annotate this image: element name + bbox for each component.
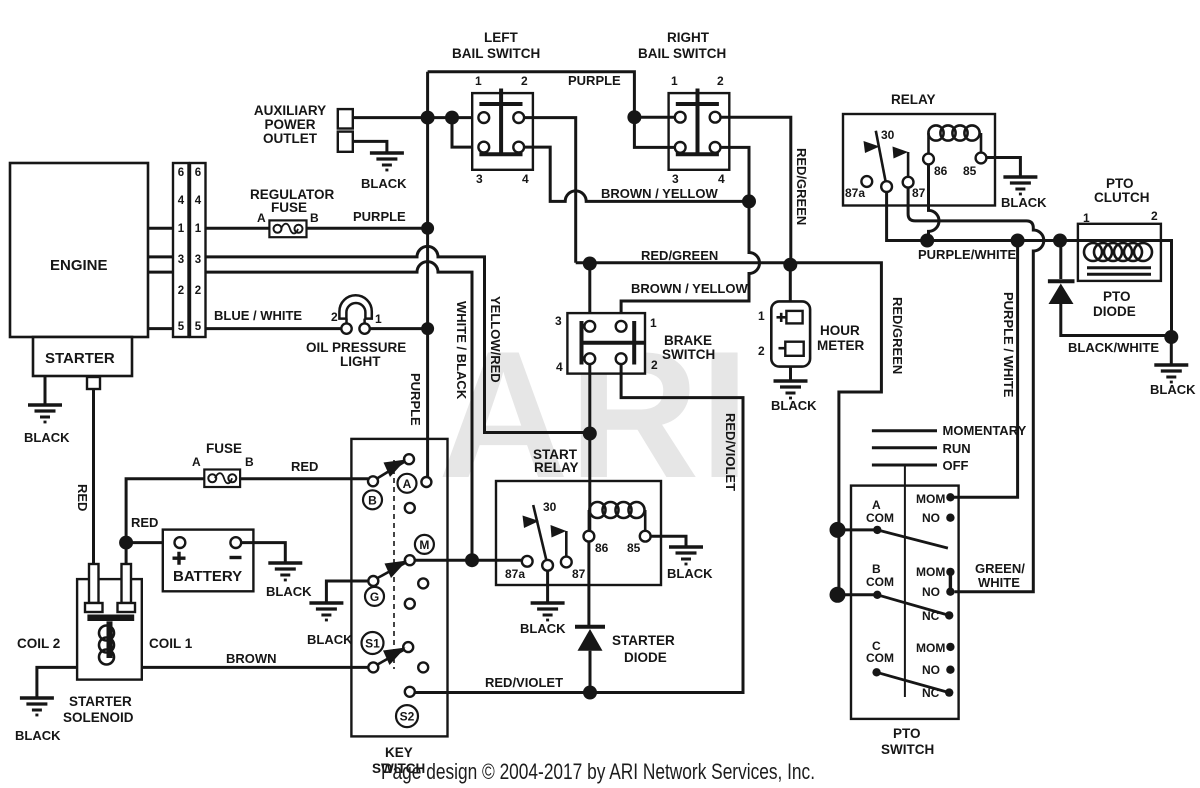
svg-text:2: 2 <box>521 74 528 88</box>
node right bail feed junction <box>627 110 641 124</box>
svg-text:SWITCH: SWITCH <box>881 742 934 757</box>
svg-text:1: 1 <box>650 316 657 330</box>
svg-text:ENGINE: ENGINE <box>50 257 108 274</box>
svg-text:BROWN: BROWN <box>226 651 277 666</box>
svg-text:B: B <box>368 494 377 508</box>
svg-text:30: 30 <box>881 128 895 142</box>
svg-text:2: 2 <box>178 285 184 297</box>
wire relay 87 down then green/white run with hop <box>908 188 1044 592</box>
svg-text:LEFT: LEFT <box>484 30 518 45</box>
svg-text:3: 3 <box>555 314 562 328</box>
svg-text:BLACK: BLACK <box>361 176 407 191</box>
svg-text:RED/VIOLET: RED/VIOLET <box>485 675 563 690</box>
wire engine pin3a <box>148 255 173 258</box>
wire start relay 85 to ground <box>651 536 686 546</box>
svg-text:BLACK: BLACK <box>24 430 70 445</box>
label GREEN/WHITE <box>975 561 1025 590</box>
ground relay <box>1003 177 1037 194</box>
svg-text:PURPLE/WHITE: PURPLE/WHITE <box>918 247 1017 262</box>
node white/black M junction <box>465 553 479 567</box>
svg-text:B: B <box>245 455 254 469</box>
svg-text:MOM: MOM <box>916 492 945 506</box>
key arm B-A <box>377 462 404 479</box>
wire B com junction to contact <box>838 593 878 596</box>
ground pto <box>1154 365 1188 382</box>
wire right bail pin2 down red/green vertical <box>721 117 791 265</box>
ground start relay 85 <box>669 547 703 564</box>
svg-text:BLACK: BLACK <box>1150 382 1196 397</box>
svg-text:4: 4 <box>556 360 563 374</box>
wire start relay 86 line down to starter diode <box>587 542 590 625</box>
svg-text:3: 3 <box>672 172 679 186</box>
key switch S3 <box>351 439 447 776</box>
wire engine pin5 <box>148 327 173 330</box>
wire battery minus to ground <box>241 543 285 562</box>
wire purple/white down to PTO switch A MOM <box>950 241 1017 498</box>
wire engine pin3b to white/black corner with hop over purple line <box>206 262 473 560</box>
ground solenoid <box>20 698 54 715</box>
label AUXILIARY POWER OUTLET <box>254 103 326 146</box>
pto switch legend OFF <box>872 458 969 473</box>
node pto B com junction <box>830 587 846 603</box>
wire RED/GREEN main run <box>576 263 882 595</box>
svg-text:STARTER: STARTER <box>612 633 675 648</box>
wire BLUE/WHITE engine pin5 to oil pressure light <box>206 308 347 329</box>
svg-text:BATTERY: BATTERY <box>173 568 242 585</box>
start relay coil <box>589 510 645 530</box>
svg-text:RIGHT: RIGHT <box>667 30 710 45</box>
svg-text:B: B <box>310 211 319 225</box>
key arm G-M <box>378 563 406 578</box>
svg-text:COM: COM <box>866 651 894 665</box>
node purple-oil junction <box>421 322 434 335</box>
svg-text:RED: RED <box>291 459 318 474</box>
ground starter <box>28 405 62 422</box>
ground battery <box>268 563 302 580</box>
auxiliary power outlet connector 2 <box>338 132 353 152</box>
svg-text:YELLOW/RED: YELLOW/RED <box>488 296 503 383</box>
ground start relay pivot <box>531 603 565 620</box>
svg-text:A: A <box>403 477 412 491</box>
node purple-regulator junction <box>421 222 434 235</box>
svg-text:2: 2 <box>195 285 201 297</box>
svg-text:LIGHT: LIGHT <box>340 354 381 369</box>
svg-text:COM: COM <box>866 511 894 525</box>
svg-text:S2: S2 <box>400 710 415 724</box>
wire relay 85 to ground <box>987 158 1021 177</box>
svg-text:BLACK: BLACK <box>1001 195 1047 210</box>
svg-text:DIODE: DIODE <box>1093 304 1136 319</box>
svg-text:POWER: POWER <box>264 117 315 132</box>
svg-text:RED: RED <box>75 484 90 511</box>
svg-text:RED/GREEN: RED/GREEN <box>641 248 718 263</box>
svg-text:STARTER: STARTER <box>69 694 132 709</box>
svg-text:NO: NO <box>922 663 940 677</box>
wire purple main vertical from top wire to key switch A <box>426 72 429 477</box>
wire junction down to right bail pin3 <box>634 117 674 147</box>
node red/green brake junction <box>583 257 597 271</box>
wire pin1 to regulator fuse <box>206 227 270 230</box>
node black/white ground junction <box>1164 330 1178 344</box>
svg-text:5: 5 <box>178 321 185 333</box>
svg-text:3: 3 <box>178 254 184 266</box>
svg-text:1: 1 <box>178 223 185 235</box>
svg-text:CLUTCH: CLUTCH <box>1094 190 1150 205</box>
node aux-purple junction <box>421 111 435 125</box>
starter solenoid K1 <box>17 564 193 725</box>
svg-text:4: 4 <box>178 195 185 207</box>
node purple/white junction 86 <box>920 234 934 248</box>
wire key G to ground <box>326 581 368 602</box>
svg-text:BLACK: BLACK <box>520 621 566 636</box>
node purple/white A-mom junction <box>1011 234 1025 248</box>
svg-text:S1: S1 <box>365 637 380 651</box>
relay U1 <box>843 92 995 206</box>
svg-text:PURPLE: PURPLE <box>568 73 621 88</box>
wire right bail pin4 down with hop over red/green <box>621 147 759 321</box>
svg-text:BLUE / WHITE: BLUE / WHITE <box>214 308 302 323</box>
svg-text:BAIL SWITCH: BAIL SWITCH <box>638 46 726 61</box>
svg-text:2: 2 <box>1151 209 1158 223</box>
svg-text:RED: RED <box>131 515 158 530</box>
svg-text:BROWN / YELLOW: BROWN / YELLOW <box>601 186 718 201</box>
wire start relay pivot to ground <box>546 571 549 602</box>
right bail switch <box>638 30 729 186</box>
svg-text:M: M <box>419 538 429 552</box>
svg-text:NO: NO <box>922 511 940 525</box>
svg-text:MOM: MOM <box>916 565 945 579</box>
svg-text:DIODE: DIODE <box>624 650 667 665</box>
svg-text:BLACK: BLACK <box>266 584 312 599</box>
node brown/yellow junction <box>742 194 756 208</box>
svg-text:85: 85 <box>627 541 641 555</box>
fuse F1 <box>192 441 254 487</box>
wire left bail pin2 to red/green run <box>524 118 576 263</box>
svg-text:G: G <box>370 590 379 604</box>
svg-text:A: A <box>192 455 201 469</box>
svg-text:85: 85 <box>963 164 977 178</box>
svg-text:BLACK/WHITE: BLACK/WHITE <box>1068 340 1159 355</box>
pto switch S4 <box>851 465 959 757</box>
wire junction down to brake pin3 <box>588 264 591 321</box>
pto switch legend RUN <box>872 441 971 456</box>
wire BROWN solenoid to key S1 <box>142 666 368 669</box>
ground aux outlet <box>370 153 404 170</box>
brake switch <box>555 313 715 374</box>
svg-text:STARTER: STARTER <box>45 350 115 367</box>
auxiliary power outlet connector 1 <box>338 109 353 128</box>
svg-text:BRAKE: BRAKE <box>664 333 712 348</box>
svg-text:KEY: KEY <box>385 745 413 760</box>
svg-text:4: 4 <box>718 172 725 186</box>
svg-text:FUSE: FUSE <box>271 200 307 215</box>
svg-text:HOUR: HOUR <box>820 323 860 338</box>
svg-text:RED/VIOLET: RED/VIOLET <box>723 413 738 491</box>
svg-text:PURPLE: PURPLE <box>408 373 423 426</box>
wire brake pin4 down to start relay junction <box>588 364 591 536</box>
svg-text:BLACK: BLACK <box>771 398 817 413</box>
pto diode D1 <box>1048 241 1171 336</box>
svg-text:1: 1 <box>758 309 765 323</box>
hour meter <box>758 265 865 380</box>
svg-text:PTO: PTO <box>1106 176 1134 191</box>
key letter circles <box>362 474 434 727</box>
svg-text:BLACK: BLACK <box>667 566 713 581</box>
engine box <box>10 163 148 337</box>
svg-text:OUTLET: OUTLET <box>263 131 318 146</box>
svg-text:RUN: RUN <box>943 441 971 456</box>
wire relay 86 down with hop to purple/white junction <box>929 164 940 240</box>
svg-text:1: 1 <box>671 74 678 88</box>
svg-text:86: 86 <box>595 541 609 555</box>
svg-text:NO: NO <box>922 585 940 599</box>
svg-text:1: 1 <box>375 312 382 326</box>
wire A com junction to contact <box>838 528 878 531</box>
node left bail feed junction <box>445 111 459 125</box>
svg-text:87a: 87a <box>845 186 865 200</box>
wire engine pin1 <box>148 227 173 230</box>
wire brown/yellow 1 from left bail pin4 with hop <box>524 147 749 201</box>
key arm S1 <box>378 650 404 665</box>
wire RED/VIOLET brake pin2 to key S2 <box>410 364 743 692</box>
relay coil <box>929 133 982 154</box>
svg-text:3: 3 <box>195 254 201 266</box>
svg-text:WHITE / BLACK: WHITE / BLACK <box>454 301 469 400</box>
svg-text:NC: NC <box>922 609 940 623</box>
svg-text:PTO: PTO <box>1103 289 1131 304</box>
svg-text:COM: COM <box>866 575 894 589</box>
svg-text:FUSE: FUSE <box>206 441 242 456</box>
svg-text:PURPLE: PURPLE <box>353 209 406 224</box>
wire aux outlet 2 to ground <box>353 141 387 152</box>
svg-text:OFF: OFF <box>943 458 969 473</box>
svg-text:MOMENTARY: MOMENTARY <box>943 423 1027 438</box>
pto switch legend MOMENTARY <box>872 423 1027 438</box>
node yellow/red start relay junction <box>583 427 597 441</box>
svg-text:1: 1 <box>475 74 482 88</box>
svg-text:6: 6 <box>195 167 201 179</box>
node red/green hourmeter junction <box>783 258 797 272</box>
svg-text:GREEN/: GREEN/ <box>975 561 1025 576</box>
svg-text:2: 2 <box>651 358 658 372</box>
wire starter to ground <box>44 376 47 404</box>
start relay U2 <box>496 447 661 585</box>
wire RED fuse to key B <box>240 477 368 480</box>
pto clutch <box>1078 176 1172 336</box>
svg-text:SWITCH: SWITCH <box>662 347 715 362</box>
svg-text:5: 5 <box>195 321 202 333</box>
starter box <box>33 337 132 376</box>
svg-text:3: 3 <box>476 172 483 186</box>
wire oil light pin1 to purple line <box>370 327 428 330</box>
svg-text:A: A <box>257 211 266 225</box>
left bail switch <box>452 30 540 186</box>
svg-text:RED/GREEN: RED/GREEN <box>890 297 905 374</box>
wire junction down to left bail pin3 <box>452 118 484 148</box>
svg-text:BAIL SWITCH: BAIL SWITCH <box>452 46 540 61</box>
node pto A com junction <box>830 522 846 538</box>
oil pressure light <box>306 295 406 369</box>
engine connector 6-pin columns <box>173 163 206 337</box>
svg-text:2: 2 <box>331 310 338 324</box>
svg-text:OIL PRESSURE: OIL PRESSURE <box>306 340 406 355</box>
svg-text:87: 87 <box>912 186 926 200</box>
svg-text:2: 2 <box>717 74 724 88</box>
wire engine pin3b <box>148 271 173 274</box>
wire fuse left down to battery junction <box>126 479 204 563</box>
svg-text:COIL 1: COIL 1 <box>149 636 193 651</box>
node red/violet starter diode junction <box>583 686 597 700</box>
ground key G <box>309 603 343 620</box>
node battery red junction <box>119 536 133 550</box>
svg-text:A: A <box>872 498 881 512</box>
svg-text:B: B <box>872 562 881 576</box>
starter diode D2 <box>575 627 675 693</box>
svg-text:6: 6 <box>178 167 184 179</box>
svg-text:MOM: MOM <box>916 641 945 655</box>
wire junction to right bail pin1 <box>634 116 674 119</box>
svg-text:4: 4 <box>522 172 529 186</box>
wire top purple run to right bail <box>428 72 635 118</box>
svg-text:4: 4 <box>195 195 202 207</box>
svg-text:AUXILIARY: AUXILIARY <box>254 103 326 118</box>
svg-text:30: 30 <box>543 500 557 514</box>
svg-text:2: 2 <box>758 344 765 358</box>
wire relay 30 pivot down to purple/white run <box>887 192 1085 241</box>
svg-text:PTO: PTO <box>893 726 921 741</box>
ground hour meter <box>774 381 808 398</box>
node pto diode junction <box>1053 234 1067 248</box>
wire key M to start relay 87a <box>415 559 522 562</box>
svg-text:COIL 2: COIL 2 <box>17 636 60 651</box>
wire solenoid coil2 to ground <box>37 667 77 697</box>
svg-text:RELAY: RELAY <box>891 92 936 107</box>
svg-text:METER: METER <box>817 338 865 353</box>
regulator fuse <box>250 187 335 237</box>
svg-text:BLACK: BLACK <box>307 632 353 647</box>
wire PURPLE regulator fuse to purple node <box>307 209 428 228</box>
svg-text:BROWN / YELLOW: BROWN / YELLOW <box>631 281 748 296</box>
wire engine pin3a to yellow/red corner with hop over purple line <box>206 246 590 432</box>
wire RED starter to solenoid left post <box>92 389 95 566</box>
wire junction to battery plus <box>126 541 174 544</box>
svg-text:87a: 87a <box>505 567 525 581</box>
svg-text:Page design © 2004-2017 by ARI: Page design © 2004-2017 by ARI Network S… <box>381 759 815 784</box>
svg-text:BLACK: BLACK <box>15 728 61 743</box>
wire junction to ground <box>1170 337 1173 364</box>
svg-text:RELAY: RELAY <box>534 460 579 475</box>
svg-text:PURPLE / WHITE: PURPLE / WHITE <box>1001 292 1016 398</box>
svg-text:1: 1 <box>195 223 202 235</box>
starter post connector <box>87 377 100 389</box>
svg-text:SOLENOID: SOLENOID <box>63 710 134 725</box>
wire aux outlet to left bail pin1 <box>353 116 484 119</box>
svg-text:WHITE: WHITE <box>978 575 1020 590</box>
battery B1 <box>163 530 254 592</box>
svg-text:86: 86 <box>934 164 948 178</box>
svg-text:87: 87 <box>572 567 586 581</box>
watermark ARI <box>438 314 750 516</box>
svg-text:NC: NC <box>922 686 940 700</box>
svg-text:RED/GREEN: RED/GREEN <box>794 148 809 225</box>
